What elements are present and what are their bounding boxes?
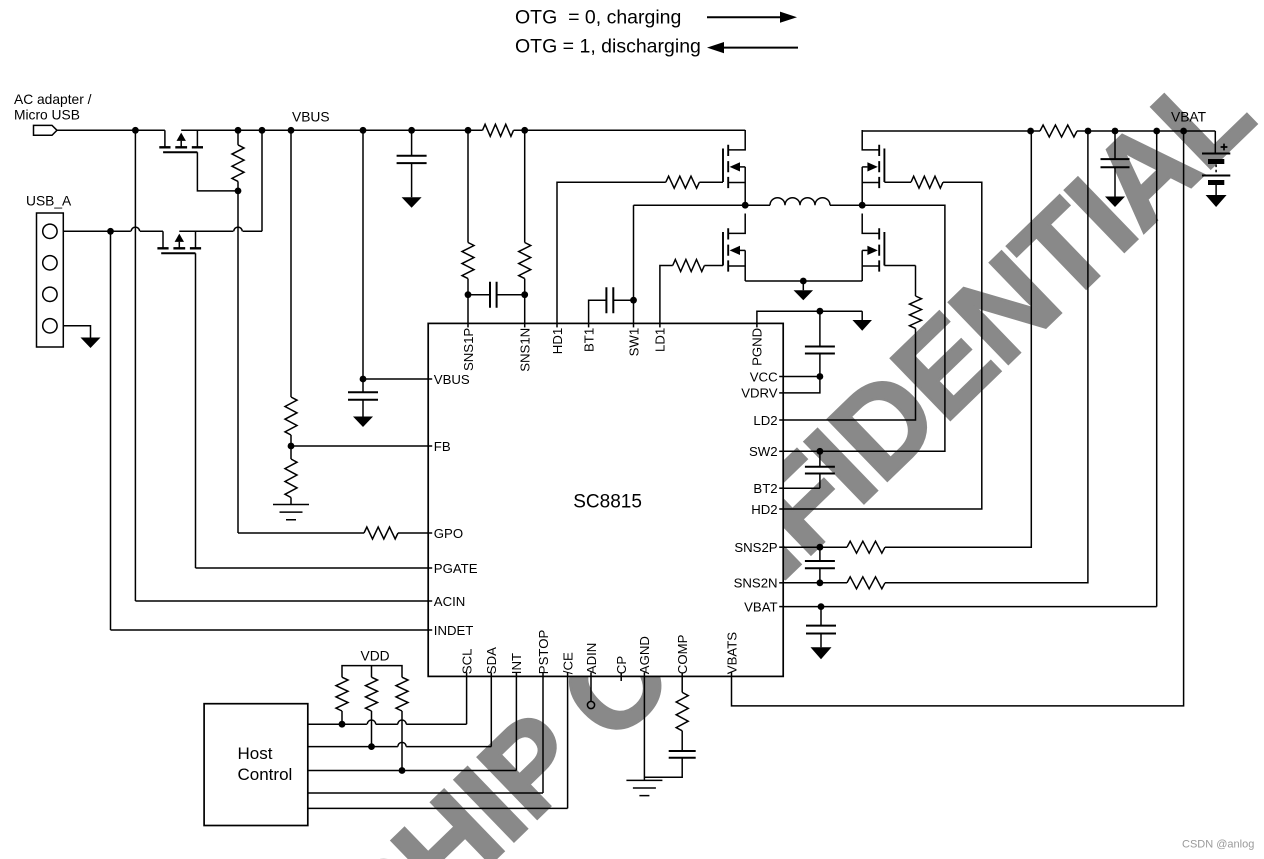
junction USB pin1 / INDET (107, 228, 114, 235)
USB_A pin 3 circle (43, 287, 57, 301)
wire /CE host (308, 807, 568, 809)
ground PGND (852, 320, 872, 331)
wire R-COMP to C-COMP (681, 731, 683, 751)
svg-text:SW2: SW2 (749, 444, 778, 459)
wire C-sns1 right (497, 294, 525, 296)
wire PGATE pin (196, 567, 432, 569)
wire C-COMP to AGND (644, 758, 682, 777)
wire rail to VBUS pin (362, 130, 364, 379)
wire rail to C-vbus1 (411, 130, 413, 155)
battery plus sign (1221, 144, 1228, 151)
transistor Q4 NMOS low-side 2 (862, 214, 884, 282)
wire R-SDA bottom (371, 711, 373, 747)
pin VBAT stub (779, 606, 783, 608)
svg-text:INT: INT (509, 653, 524, 674)
wire USB VBUS (pin1) segment 3 (179, 230, 233, 232)
svg-text:SNS2P: SNS2P (734, 540, 777, 555)
svg-text:SW1: SW1 (626, 328, 641, 357)
svg-text:LD2: LD2 (753, 413, 777, 428)
wire BT2 pin to C-bt2 (783, 487, 820, 489)
wire ADIN stub (590, 676, 592, 701)
capacitor C-vbus1 (397, 156, 427, 163)
junction switch node 1 (742, 202, 749, 209)
resistor R-pullup INT (396, 677, 408, 711)
pin SNS2P stub (779, 546, 783, 548)
node ADIN open terminal (587, 701, 594, 708)
pin LD1 stub (659, 323, 661, 327)
junction SCL / R-pullup (339, 721, 346, 728)
wire VBAT rail left (862, 130, 1040, 132)
junction rail / VBAT pin (1153, 128, 1160, 135)
svg-text:SNS2N: SNS2N (734, 576, 778, 591)
capacitor C-vcc (805, 347, 835, 354)
wire Q5 gate to pull-up (197, 152, 238, 191)
wire BT1 pin to C-bt1 (589, 300, 607, 323)
wire /CE pin drop (567, 676, 569, 808)
pin SDA stub (490, 672, 492, 676)
wire VBUS rail left segment (57, 129, 165, 131)
wire INT pin drop (515, 676, 517, 770)
svg-text:SDA: SDA (484, 647, 499, 674)
junction VBUS pin / C-vbus2 (360, 376, 367, 383)
junction SNS2P / C-sns2 (817, 544, 824, 551)
wire PGND pin (757, 311, 862, 323)
svg-text:ADIN: ADIN (584, 643, 599, 675)
pin CP outward stub (620, 676, 622, 681)
junction Q5 gate node (235, 188, 242, 195)
junction rail / USB switch (259, 127, 266, 134)
wire SNS2N pin (783, 582, 847, 584)
svg-text:LD1: LD1 (653, 328, 668, 352)
connector USB_A (37, 213, 64, 347)
svg-text:FB: FB (434, 439, 451, 454)
resistor R-sense2 (VBAT) (1040, 125, 1077, 137)
wire SW2 to C-bt2 (819, 451, 821, 467)
wire C-sns2 bottom (819, 568, 821, 583)
junction INT / R-pullup (399, 767, 406, 774)
svg-text:HD1: HD1 (550, 328, 565, 354)
svg-text:CP: CP (614, 656, 629, 675)
resistor R-SNS1N filter (519, 243, 531, 279)
wire VBAT rail right (1077, 130, 1215, 132)
ground C-vbus1 (402, 197, 422, 208)
junction SW2 / C-bt2 (817, 448, 824, 455)
wire SCL pin drop (466, 676, 468, 724)
resistor R-FB-bottom (285, 459, 297, 498)
op-amp U1 SC8815 IC body (428, 323, 783, 676)
svg-text:OTG = 1, discharging: OTG = 1, discharging (515, 36, 701, 58)
svg-text:VBAT: VBAT (744, 599, 777, 614)
pin AGND stub (643, 672, 645, 676)
wire USB pin1 to INDET (110, 231, 112, 630)
wire GPO to resistor (238, 532, 364, 534)
transistor Q1 NMOS high-side 1 (723, 130, 745, 205)
ground FB divider (earth) (273, 505, 309, 520)
resistor R-LD1 gate (673, 260, 705, 272)
pin BT1 stub (588, 323, 590, 327)
resistor R-gate-pullup Q5 (232, 145, 244, 182)
pin LD2 stub (779, 419, 783, 421)
pin BT2 stub (779, 487, 783, 489)
svg-text:SCL: SCL (459, 649, 474, 675)
pin COMP stub (681, 672, 683, 676)
wire VDD rail (342, 666, 402, 678)
svg-text:BT1: BT1 (581, 328, 596, 352)
wire SCL host segment 1 (308, 723, 367, 725)
resistor R-GPO (364, 527, 398, 539)
ground C-vbat2 (811, 647, 832, 659)
wire R-GPO to GPO pin (398, 532, 431, 534)
battery BT VBAT (1202, 131, 1230, 195)
wire LD1 pin to gate resistor (660, 266, 673, 324)
wire AGND (643, 676, 645, 780)
junction rail / VBATS (1180, 128, 1187, 135)
arrow charging (right) (707, 16, 783, 18)
transistor Q5 PMOS adapter switch (159, 130, 203, 152)
wire SNS1N to pin (524, 279, 526, 324)
resistor R-pullup SCL (336, 677, 348, 711)
wire R-LD1 to Q2 gate (704, 265, 723, 267)
capacitor C-vbat2 (806, 626, 836, 634)
pin SNS1N stub (524, 323, 526, 327)
wire HD1 pin to gate resistor (557, 182, 666, 323)
pin HD2 stub (779, 508, 783, 510)
wire PGND to ground arrow (861, 311, 863, 320)
wire SNS1N upper (524, 130, 526, 242)
resistor R-HD2 gate (911, 176, 943, 188)
wire Q6 gate to PGATE (195, 253, 197, 568)
junction SNS2N / C-sns2 (817, 579, 824, 586)
USB_A pin 4 circle (43, 319, 57, 333)
junction rail / SNS2P (1027, 128, 1034, 135)
pin PGND stub (756, 323, 758, 327)
wire VBATS to VBAT rail (732, 131, 1184, 706)
svg-text:CSDN @anlog: CSDN @anlog (1182, 839, 1254, 851)
pin SNS1P stub (467, 323, 469, 327)
svg-text:Micro USB: Micro USB (14, 108, 80, 123)
wire C-vcc top (819, 311, 821, 346)
ground C-vbat1 (1105, 197, 1125, 208)
wire SNS1P upper (467, 130, 469, 242)
wire gate node to GPO resistor (237, 191, 239, 533)
wire SDA pin drop (490, 676, 492, 746)
pin SNS2N stub (779, 582, 783, 584)
wire PSTOP pin drop (542, 676, 544, 793)
svg-text:USB_A: USB_A (26, 194, 72, 209)
svg-text:VDRV: VDRV (741, 386, 778, 401)
wire to C-sns1 left (468, 294, 490, 296)
resistor R-SNS2N filter (847, 577, 885, 589)
junction switch node 2 (859, 202, 866, 209)
pin PSTOP stub (542, 672, 544, 676)
svg-text:VCC: VCC (750, 369, 778, 384)
capacitor C-bt2 (805, 467, 835, 474)
resistor R-LD2 gate (910, 296, 922, 328)
Host Control box (204, 704, 308, 826)
svg-text:AC adapter /: AC adapter / (14, 92, 92, 107)
junction SW1 / C-bt1 (630, 297, 637, 304)
wire INDET pin (111, 629, 432, 631)
pin SCL stub (466, 672, 468, 676)
wire USB VBUS (pin1) segment 1 (63, 230, 131, 232)
wire USB VBUS (pin1) segment 2 (140, 230, 163, 232)
wire Q3 gate to R-HD2 (884, 181, 911, 183)
pin VBUS stub (428, 378, 432, 380)
capacitor C-COMP (669, 751, 696, 758)
junction rail / R pull-up (235, 127, 242, 134)
svg-text:GPO: GPO (434, 526, 463, 541)
resistor R-FB-top (285, 397, 297, 435)
pin VDRV stub (779, 392, 783, 394)
junction rail / SNS2N (1085, 128, 1092, 135)
wire SW2 pin to switch node 2 (783, 205, 945, 451)
pin HD1 stub (556, 323, 558, 327)
ground AGND (earth) (626, 780, 662, 795)
junction power ground (800, 278, 807, 285)
wire VDD to R-SDA (371, 666, 373, 678)
pin SW1 stub (633, 323, 635, 327)
capacitor C-sns2 (805, 561, 835, 568)
junction SDA / R-pullup (368, 743, 375, 750)
connector tag AC input (34, 125, 58, 135)
wire rail to ACIN (134, 130, 136, 601)
wire R-LD2 to LD2 pin (783, 328, 915, 420)
junction rail / ACIN (132, 127, 139, 134)
capacitor C-vbus2 (348, 392, 378, 399)
svg-text:SNS1N: SNS1N (518, 328, 533, 372)
svg-text:VBAT: VBAT (1171, 110, 1207, 125)
wire USB VBUS (pin1) segment 4 (243, 230, 262, 232)
wire SCL host segment 3 (406, 723, 466, 725)
svg-text:VDD: VDD (361, 649, 390, 664)
wire R-SNS2P to VBAT rail (885, 131, 1031, 547)
inductor L1 (745, 198, 862, 205)
svg-text:PGND: PGND (750, 328, 765, 366)
wire VCC pin (783, 376, 820, 378)
wire SW1 to switch node (634, 204, 746, 206)
pin SW2 stub (779, 450, 783, 452)
wire rail to C-vbat1 (1114, 131, 1116, 159)
wire to C-vbus2 (362, 379, 364, 392)
pin VCC stub (779, 376, 783, 378)
USB_A pin 2 circle (43, 256, 57, 270)
wire power ground bus (745, 280, 862, 282)
junction rail / SNS1P (465, 127, 472, 134)
svg-text:SC8815: SC8815 (573, 492, 642, 513)
svg-text:VBUS: VBUS (292, 110, 330, 125)
svg-text:AGND: AGND (637, 636, 652, 674)
resistor R-SNS2P filter (847, 541, 885, 553)
capacitor C-bt1 (606, 287, 613, 313)
capacitor C-vbat1 (1101, 159, 1130, 167)
pin INDET stub (428, 629, 432, 631)
wire C-vcc bottom (819, 354, 821, 377)
pin CP stub (620, 672, 622, 676)
pin ADIN stub (590, 672, 592, 676)
wire USB pin4 to ground (63, 326, 90, 338)
svg-text:Host: Host (238, 744, 273, 763)
wire VBAT pin to rail (783, 606, 1156, 608)
svg-text:PSTOP: PSTOP (536, 630, 551, 675)
resistor R-sense1 (VBUS) (483, 124, 514, 136)
wire SNS1P to pin (467, 279, 469, 324)
svg-text:PGATE: PGATE (434, 561, 478, 576)
wire Q4 gate to R-LD2 (884, 265, 915, 267)
junction rail / SNS1N (521, 127, 528, 134)
svg-text:Control: Control (238, 765, 293, 784)
junction SNS1N / C-sns1 (521, 291, 528, 298)
ground C-vbus2 (353, 417, 373, 428)
pin GPO stub (428, 532, 432, 534)
wire VBAT rail drop (1156, 131, 1158, 607)
pin ACIN stub (428, 600, 432, 602)
transistor Q6 PMOS USB switch (157, 231, 201, 253)
junction rail / VBUS pin line (360, 127, 367, 134)
wire PSTOP host (308, 792, 543, 794)
svg-text:/CE: /CE (560, 652, 575, 674)
ground battery (1206, 195, 1227, 207)
wire to power ground arrow (802, 281, 804, 290)
pin FB stub (428, 445, 432, 447)
wire rail to USB switch (261, 130, 263, 231)
wire C-vbat2 top (820, 607, 822, 626)
resistor R-COMP (676, 692, 688, 730)
junction rail / C-vbus1 (408, 127, 415, 134)
wire ACIN pin (135, 600, 431, 602)
wire R-INT bottom (401, 711, 403, 771)
wire R-HD2 to HD2 pin (783, 182, 982, 509)
svg-text:COMP: COMP (675, 634, 690, 674)
USB_A pin 1 circle (43, 224, 57, 238)
wire VBUS pin (363, 378, 431, 380)
resistor R-HD1 gate (666, 176, 700, 188)
capacitor C-sns1 (490, 282, 497, 308)
svg-text:OTG = 0, charging: OTG = 0, charging (515, 7, 681, 29)
resistor R-pullup SDA (366, 677, 378, 711)
pin VBATS stub (731, 672, 733, 676)
junction PGND / C-vcc (817, 308, 824, 315)
ground power stage (794, 290, 814, 300)
junction rail / C-vbat1 (1112, 128, 1119, 135)
junction SNS1P / C-sns1 (465, 291, 472, 298)
wire INT host (308, 770, 517, 772)
wire C-sns2 top (819, 547, 821, 561)
wire R-HD1 to Q1 gate (699, 181, 723, 183)
junction FB node (288, 443, 295, 450)
arrow discharging (left) (722, 47, 798, 49)
wire SNS2P pin (783, 546, 847, 548)
pin INT stub (515, 672, 517, 676)
wire VDRV pin to VCC (783, 377, 820, 393)
junction VBAT / C-vbat2 (818, 603, 825, 610)
wire SW1 pin up (633, 205, 635, 323)
svg-text:INDET: INDET (434, 623, 474, 638)
svg-text:VBATS: VBATS (724, 632, 739, 674)
svg-text:BT2: BT2 (753, 481, 777, 496)
resistor R-SNS1P filter (462, 243, 474, 279)
wire C-bt1 to SW1 (613, 299, 633, 301)
wire R-SCL bottom (341, 711, 343, 724)
wire SDA host segment 1 (308, 746, 398, 748)
svg-text:ACIN: ACIN (434, 594, 466, 609)
pin /CE stub (567, 672, 569, 676)
svg-text:VBUS: VBUS (434, 372, 470, 387)
wire to R-LD2 (915, 266, 917, 297)
junction VCC / VDRV / C-vcc (817, 373, 824, 380)
wire VBUS rail main segment (181, 129, 482, 131)
wire rail to R pull-up (237, 130, 239, 145)
wire SCL host segment 2 (376, 723, 398, 725)
svg-text:SNS1P: SNS1P (461, 328, 476, 371)
wire VBUS rail east segment (514, 129, 746, 131)
wire SDA host segment 2 (406, 746, 491, 748)
pin PGATE stub (428, 567, 432, 569)
ground USB shell (81, 338, 101, 349)
wire COMP pin (681, 676, 683, 692)
svg-text:HD2: HD2 (751, 502, 777, 517)
transistor Q2 NMOS low-side 1 (723, 214, 745, 282)
junction rail / FB divider (288, 127, 295, 134)
wire R-SNS2N to VBAT rail (885, 131, 1088, 583)
wire FB pin (291, 445, 431, 447)
wire rail to FB divider (290, 130, 292, 397)
transistor Q3 NMOS high-side 2 (862, 130, 884, 205)
